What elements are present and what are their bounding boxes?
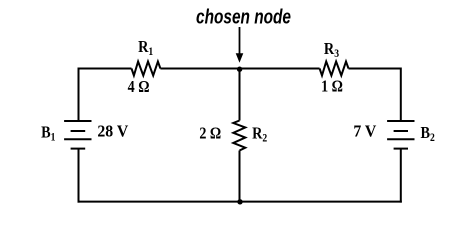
wire: right branch upper [400, 68, 402, 122]
label 1 ohm [321, 77, 343, 95]
resistor R3 zigzag [320, 62, 349, 76]
label B2 [421, 124, 435, 144]
svg-text:7 V: 7 V [353, 121, 376, 141]
svg-text:2 Ω: 2 Ω [199, 124, 221, 142]
label R3 [324, 40, 339, 60]
label B1 [41, 123, 55, 143]
svg-text:4 Ω: 4 Ω [128, 78, 150, 96]
wire: middle branch lower [239, 151, 241, 202]
svg-text:1 Ω: 1 Ω [321, 77, 343, 95]
wire: left branch upper [78, 68, 80, 122]
label 28 V [97, 121, 128, 141]
wire: left branch lower [78, 149, 80, 203]
node dot (bottom) [237, 199, 242, 204]
label R1 [138, 38, 153, 58]
label 7 V [353, 121, 376, 141]
wire: middle branch upper [239, 69, 241, 121]
arrow to chosen node [236, 27, 244, 63]
battery B1 [64, 121, 91, 149]
svg-text:chosen node: chosen node [196, 7, 291, 29]
wire: bottom [78, 201, 402, 203]
resistor R1 zigzag [132, 62, 161, 76]
battery B2 [387, 121, 414, 149]
wire: right branch lower [400, 149, 402, 203]
label 2 ohm [199, 124, 221, 142]
wire: top-left segment [79, 68, 132, 70]
wire: top-right segment [349, 68, 401, 70]
resistor R2 zigzag (vertical) [233, 121, 245, 151]
label R2 [252, 124, 267, 144]
svg-text:28 V: 28 V [97, 121, 128, 141]
node dot (chosen node) [237, 67, 242, 72]
wire: top middle segment [160, 68, 319, 70]
label 4 ohm [128, 78, 150, 96]
